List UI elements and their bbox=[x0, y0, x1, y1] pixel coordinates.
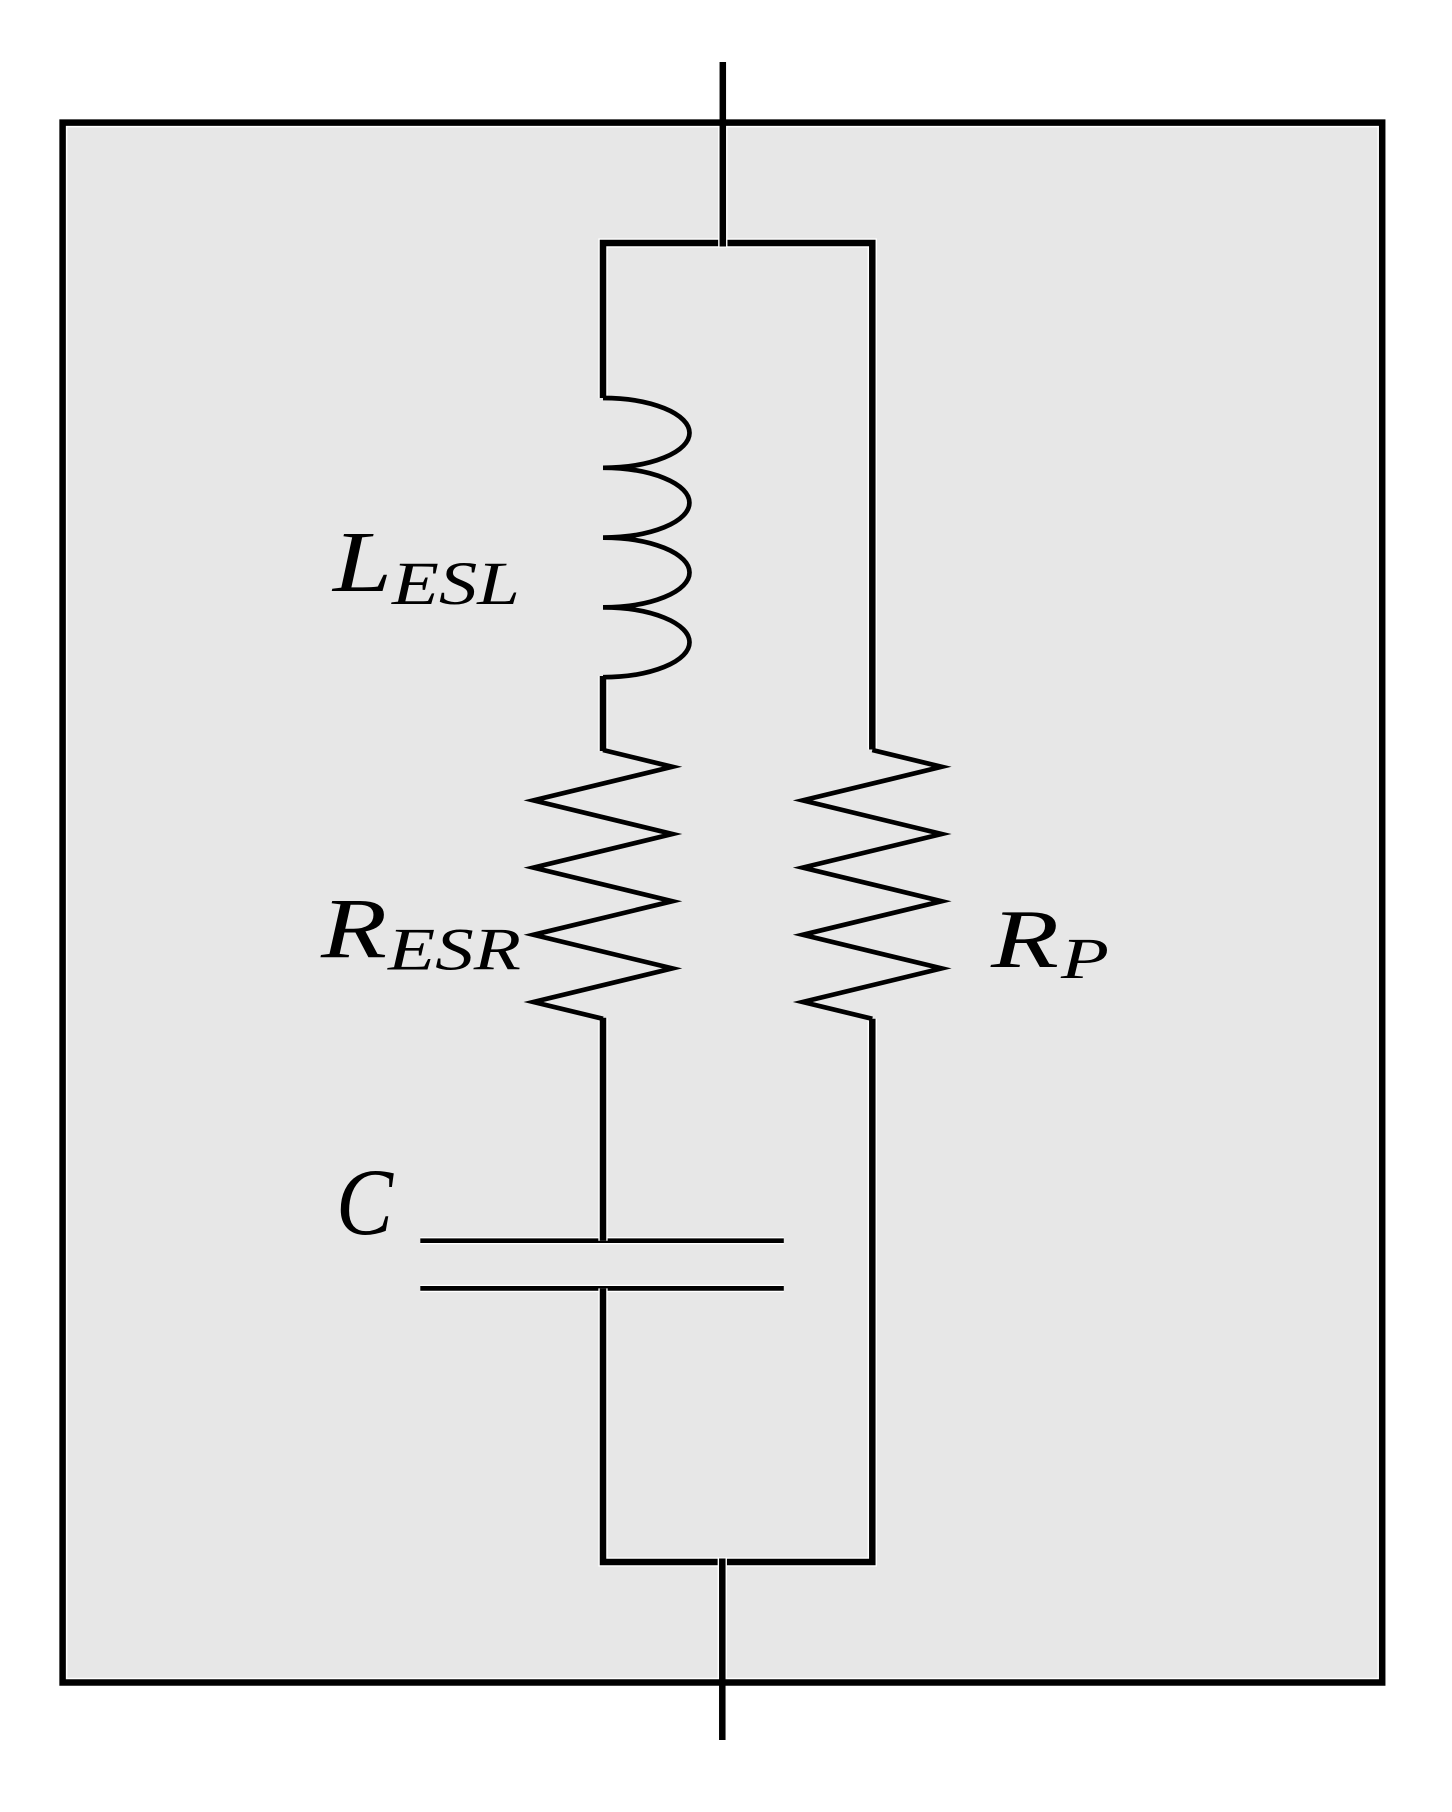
resistor R_ESR bbox=[534, 750, 673, 1019]
resistor R_P bbox=[803, 750, 942, 1019]
wire bottom lead bbox=[718, 1559, 727, 1741]
svg-text:ESR: ESR bbox=[387, 917, 521, 983]
wire inner loop bottom (node B) bbox=[603, 1019, 872, 1562]
wire between inductor and resistor R_ESR bbox=[598, 676, 607, 751]
inductor L_ESL bbox=[603, 398, 690, 677]
wire inner loop top (node A) bbox=[603, 243, 872, 750]
svg-text:R: R bbox=[320, 880, 387, 976]
enclosure box border bbox=[63, 123, 1383, 1683]
svg-text:P: P bbox=[1060, 926, 1109, 991]
label R_P bbox=[990, 893, 1109, 991]
label L_ESL bbox=[331, 513, 520, 618]
label R_ESR bbox=[320, 880, 521, 983]
capacitor C plates bbox=[420, 1241, 784, 1289]
svg-text:C: C bbox=[336, 1149, 394, 1255]
wire top lead bbox=[718, 62, 727, 247]
svg-text:R: R bbox=[990, 893, 1059, 986]
svg-text:ESL: ESL bbox=[391, 551, 520, 618]
enclosure box fill bbox=[67, 127, 1377, 1677]
svg-text:L: L bbox=[331, 513, 392, 610]
wire between resistor R_ESR and capacitor C bbox=[598, 1018, 607, 1241]
